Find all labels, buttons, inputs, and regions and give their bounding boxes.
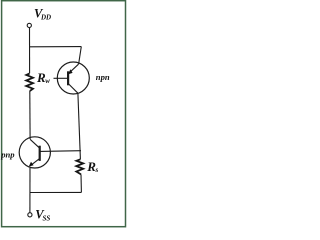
- svg-text:s: s: [95, 166, 99, 174]
- wire bottom rail: [30, 191, 82, 193]
- wire pnp emitter down to VSS: [29, 168, 31, 213]
- label VSS: [35, 208, 50, 223]
- svg-text:pnp: pnp: [0, 149, 15, 159]
- wire top branch to npn collector (horizontal): [30, 46, 82, 48]
- svg-text:w: w: [45, 77, 50, 85]
- wire npn emitter down to Rs: [78, 93, 81, 159]
- node VDD terminal circle: [27, 23, 31, 27]
- transistor Q2 npn: [54, 62, 90, 94]
- pnp emitter arrowhead (pointing outward, down-left): [29, 162, 34, 167]
- label VDD: [34, 7, 51, 22]
- wire Rs bottom to bottom rail corner: [80, 174, 82, 192]
- svg-text:npn: npn: [96, 72, 110, 82]
- svg-text:DD: DD: [40, 13, 51, 21]
- transistor Q1 pnp: [19, 137, 81, 168]
- resistor Rw: [26, 74, 33, 92]
- wire npn collector drop: [79, 47, 82, 65]
- label Rs: [86, 159, 98, 174]
- node VSS terminal circle: [28, 213, 32, 217]
- npn emitter arrowhead (pointing toward bar): [68, 69, 72, 74]
- label Rw: [36, 70, 50, 85]
- resistor Rs: [76, 159, 83, 174]
- svg-text:SS: SS: [43, 214, 51, 222]
- border frame (decorative): [2, 1, 126, 227]
- wire VDD down to Rw top: [29, 28, 31, 74]
- wire Rw bottom to pnp collector: [29, 91, 31, 139]
